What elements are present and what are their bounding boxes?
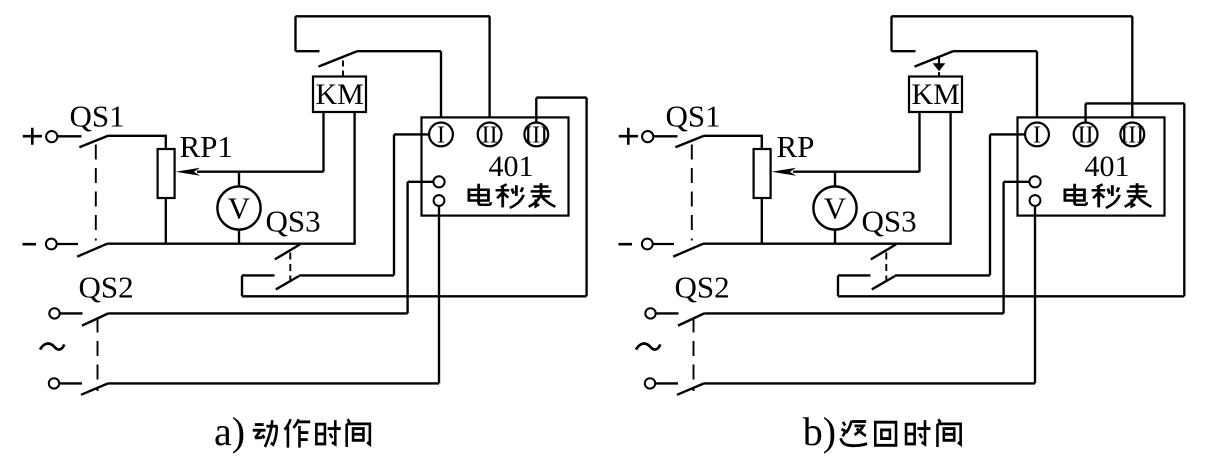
svg-text:II: II xyxy=(1078,123,1094,149)
svg-text:KM: KM xyxy=(912,78,960,111)
svg-text:QS2: QS2 xyxy=(79,270,134,305)
svg-text:401: 401 xyxy=(489,150,534,183)
svg-text:RP: RP xyxy=(777,129,815,164)
svg-text:III: III xyxy=(524,123,548,149)
svg-text:KM: KM xyxy=(316,78,364,111)
svg-text:401: 401 xyxy=(1085,150,1130,183)
svg-text:a): a) xyxy=(214,409,245,454)
svg-text:QS1: QS1 xyxy=(70,99,125,134)
svg-text:QS3: QS3 xyxy=(862,204,917,239)
svg-text:QS1: QS1 xyxy=(666,99,721,134)
svg-text:I: I xyxy=(437,123,445,149)
svg-text:b): b) xyxy=(803,409,836,454)
svg-text:III: III xyxy=(1120,123,1144,149)
svg-text:RP1: RP1 xyxy=(180,129,233,164)
svg-text:I: I xyxy=(1033,123,1041,149)
svg-text:V: V xyxy=(824,191,847,226)
svg-text:II: II xyxy=(482,123,498,149)
svg-text:V: V xyxy=(228,191,251,226)
svg-text:QS3: QS3 xyxy=(266,204,321,239)
svg-text:QS2: QS2 xyxy=(675,270,730,305)
